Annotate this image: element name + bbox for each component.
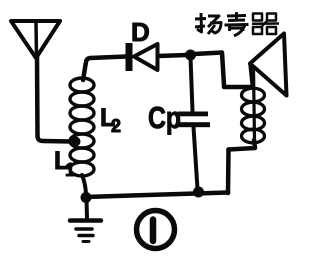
- wire diode to node A: [158, 55, 187, 56]
- node ground junction: [81, 192, 92, 203]
- speaker horn: [250, 34, 287, 96]
- inductor speaker voice coil: [242, 68, 265, 143]
- wire voice coil bottom elbow to right drop: [229, 140, 256, 150]
- char yang: [195, 17, 206, 20]
- capacitor Cp: [177, 57, 210, 189]
- diode D: [126, 43, 158, 71]
- ground: [70, 198, 101, 242]
- figure number 1 in circle: [137, 211, 175, 249]
- wire antenna lead down and right to coil tap: [37, 56, 72, 142]
- node bottom junction (Cp to rail): [193, 187, 204, 198]
- antenna: [11, 21, 60, 58]
- char qi: [252, 14, 279, 35]
- inductor L2: [70, 78, 94, 176]
- node A junction: [185, 50, 196, 61]
- wire L2 top elbow to top rail: [83, 57, 126, 81]
- node tap junction on L2: [71, 137, 81, 147]
- wire right vertical drop: [226, 150, 231, 194]
- svg-text:D: D: [131, 17, 150, 47]
- label speaker (Chinese: yang sheng qi): [195, 12, 279, 36]
- char sheng: [227, 14, 246, 17]
- svg-text:1: 1: [65, 160, 75, 180]
- svg-text:Cp: Cp: [148, 100, 181, 135]
- wire bottom rail: [85, 193, 228, 198]
- svg-text:2: 2: [111, 116, 121, 136]
- wire L2 bottom to ground node: [82, 175, 86, 196]
- wire node A to speaker branch: [194, 53, 251, 88]
